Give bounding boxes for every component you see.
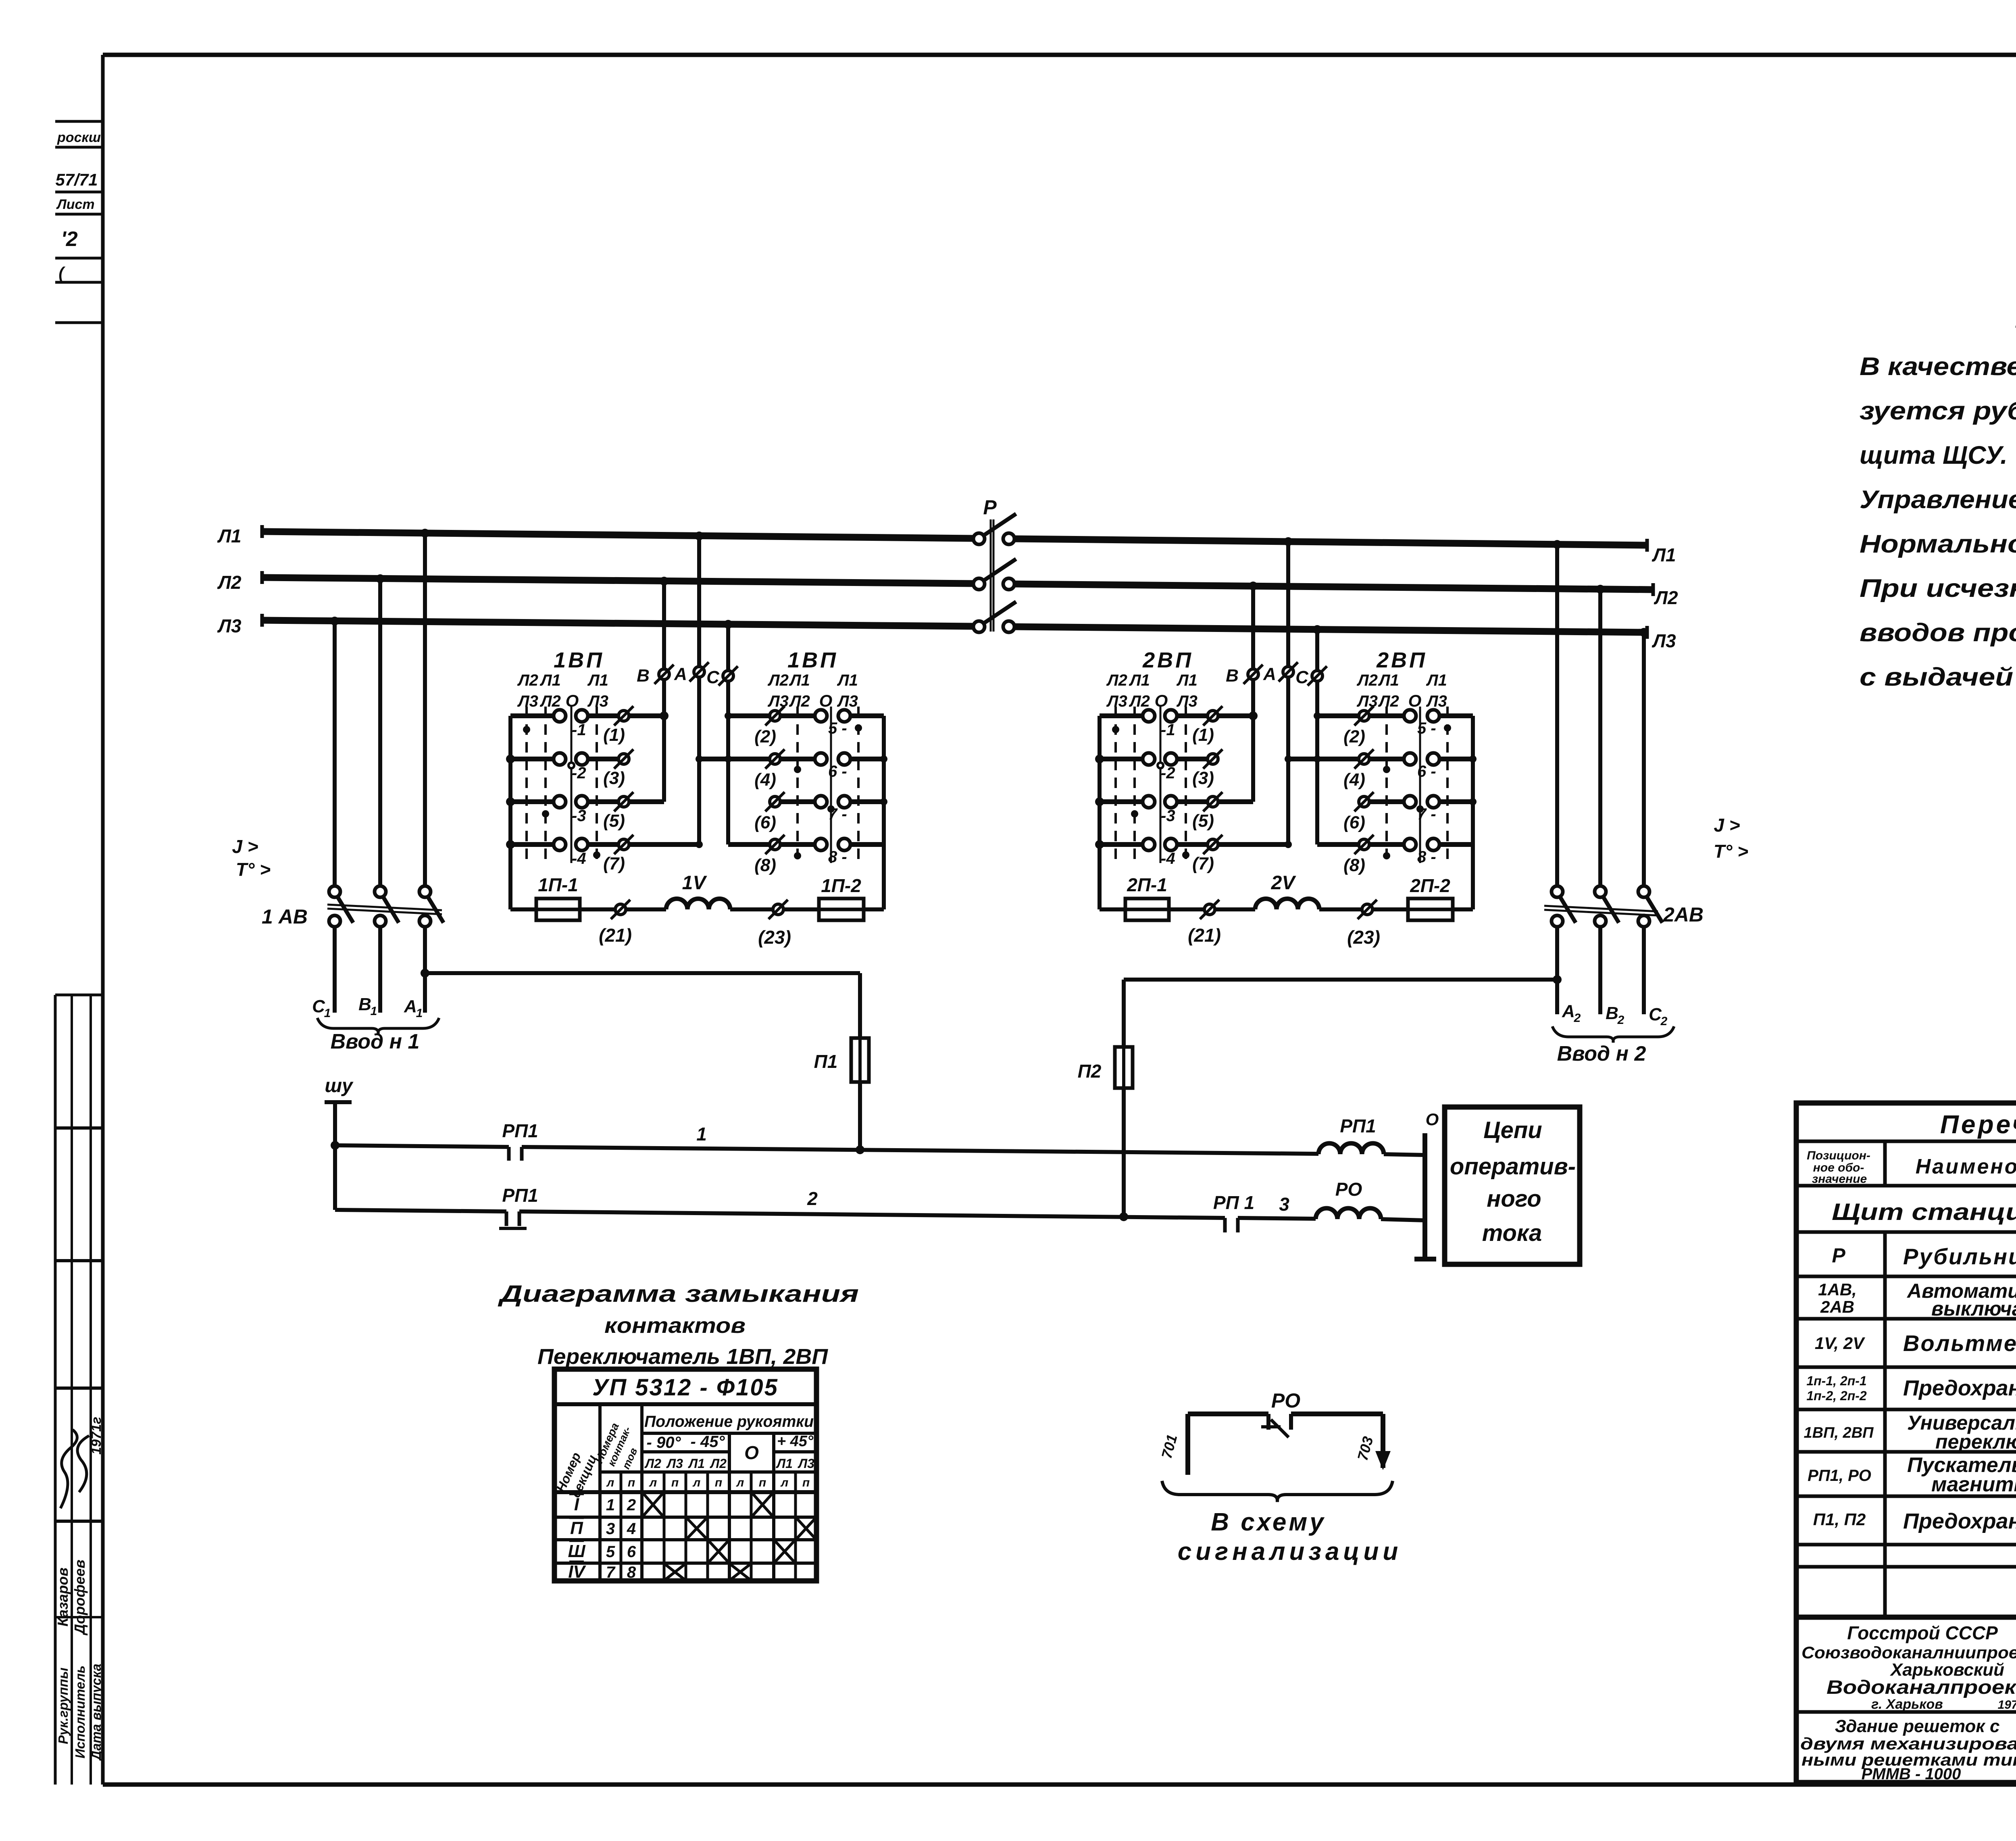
svg-text:О: О [1426, 1110, 1439, 1129]
svg-text:1: 1 [416, 1007, 423, 1020]
svg-text:О: О [566, 691, 579, 710]
heading contact closure diagram [497, 1281, 859, 1369]
svg-text:Л1: Л1 [217, 525, 241, 546]
svg-text:УП 5312 - Ф105: УП 5312 - Ф105 [592, 1374, 779, 1401]
brace Vvod 1 [317, 1018, 439, 1034]
svg-text:Л1: Л1 [539, 671, 561, 689]
svg-text:(23): (23) [1347, 927, 1380, 948]
svg-text:Л3: Л3 [1106, 692, 1127, 710]
svg-text:О: О [1408, 691, 1422, 710]
voltmeter 2V coil [1255, 872, 1319, 909]
svg-text:п: п [759, 1476, 766, 1489]
svg-text:Л3: Л3 [837, 692, 858, 710]
svg-text:1 АВ: 1 АВ [262, 905, 308, 928]
svg-text:л: л [649, 1476, 657, 1489]
svg-text:1П-1: 1П-1 [538, 874, 578, 895]
svg-text:Л1: Л1 [1176, 671, 1198, 689]
contact RP1 on wire 2 [499, 1185, 538, 1228]
svg-text:I: I [574, 1495, 579, 1514]
svg-text:-3: -3 [572, 807, 586, 825]
terminal bar node O [1414, 1110, 1439, 1259]
svg-text:оператив-: оператив- [1450, 1153, 1576, 1180]
svg-text:л: л [692, 1476, 701, 1489]
svg-text:5: 5 [606, 1543, 615, 1561]
svg-text:РП1: РП1 [502, 1185, 538, 1206]
svg-text:Управление секционным выключат: Управление секционным выключателем-ручно… [1860, 486, 2016, 514]
svg-text:'2: '2 [61, 227, 77, 251]
svg-text:Л3: Л3 [798, 1456, 814, 1471]
svg-text:О: О [1155, 691, 1168, 710]
svg-text:1V, 2V: 1V, 2V [1815, 1334, 1865, 1353]
labels 2ВП left group [1106, 648, 1214, 874]
svg-text:Ш: Ш [568, 1541, 585, 1561]
svg-text:1: 1 [371, 1005, 377, 1018]
phase taps B A C of 1ВП [629, 532, 738, 848]
top-left margin stamp [55, 121, 103, 323]
svg-text:Л2: Л2 [1106, 671, 1127, 689]
svg-text:Л1: Л1 [1426, 671, 1447, 689]
svg-text:Л3: Л3 [217, 615, 242, 636]
svg-text:Л1: Л1 [776, 1456, 793, 1471]
svg-text:Л2: Л2 [217, 572, 242, 593]
terminal (23) of 2ВП [1319, 900, 1408, 948]
explanations paragraph [1860, 352, 2016, 691]
svg-text:О: О [744, 1442, 759, 1463]
terminal labels C1 B1 A1 [312, 995, 423, 1020]
knife switch P [973, 514, 1016, 632]
element list table [1796, 1103, 2016, 1783]
svg-text:2ВП: 2ВП [1376, 648, 1427, 672]
svg-text:2П-1: 2П-1 [1127, 874, 1167, 895]
svg-text:Л3: Л3 [1176, 692, 1198, 710]
svg-text:Л3: Л3 [767, 692, 789, 710]
svg-text:В качестве секционного выключа: В качестве секционного выключателя испол… [1860, 352, 2016, 381]
fuse P2 [1078, 1047, 1133, 1217]
svg-text:переключатель: переключатель [1935, 1430, 2016, 1453]
svg-text:Л3: Л3 [517, 692, 538, 710]
svg-text:Госстрой СССР: Госстрой СССР [1847, 1622, 1998, 1643]
svg-text:С: С [312, 997, 325, 1016]
svg-text:57/71: 57/71 [55, 170, 98, 189]
control wire 2 [335, 1210, 1316, 1221]
svg-text:При исчезновении напряжения на: При исчезновении напряжения на одном из [1860, 574, 2016, 603]
svg-text:1ВП: 1ВП [554, 648, 604, 672]
universal switch 1ВП left group [506, 706, 633, 909]
bus L2 [262, 571, 1653, 596]
svg-text:В: В [1606, 1003, 1618, 1023]
bus L3 [262, 614, 1647, 639]
svg-text:7 -: 7 - [828, 805, 847, 823]
svg-text:Нормальное его положение разом: Нормальное его положение разомкнутое. [1860, 530, 2016, 558]
svg-text:Рубильник: Рубильник [1903, 1244, 2016, 1269]
svg-text:Вольтметр: Вольтметр [1903, 1330, 2016, 1356]
terminal (21) of 1ВП [580, 900, 666, 946]
svg-text:8 -: 8 - [828, 848, 847, 866]
svg-text:роскш: роскш [57, 130, 101, 145]
node ShU [325, 1075, 354, 1210]
coil RP1 [1318, 1115, 1425, 1155]
svg-text:РП1: РП1 [1340, 1115, 1376, 1136]
phase taps B A C of 2ВП [1218, 537, 1327, 848]
svg-text:1: 1 [696, 1124, 707, 1145]
svg-text:(2): (2) [1343, 727, 1365, 746]
svg-text:-2: -2 [1161, 764, 1175, 782]
svg-text:Л1: Л1 [1378, 671, 1399, 689]
svg-text:2П-2: 2П-2 [1410, 875, 1450, 896]
svg-text:1п-2, 2п-2: 1п-2, 2п-2 [1806, 1389, 1867, 1403]
svg-text:5 -: 5 - [1417, 719, 1436, 737]
svg-text:А: А [674, 664, 687, 684]
fuse 2П-2 [1408, 875, 1473, 920]
svg-text:(21): (21) [1188, 925, 1221, 946]
svg-text:Л3: Л3 [1356, 692, 1378, 710]
svg-text:Предохранитель: Предохранитель [1903, 1509, 2016, 1533]
svg-text:с выдачей сигнала в схему сигн: с выдачей сигнала в схему сигнализации. [1860, 663, 2016, 691]
svg-text:Л1: Л1 [688, 1456, 705, 1471]
svg-text:- 90°: - 90° [647, 1434, 681, 1451]
svg-text:2V: 2V [1271, 872, 1297, 894]
svg-text:Наименование: Наименование [1916, 1155, 2016, 1178]
right frame of 1ВП [882, 716, 886, 909]
fuse 1П-1 [510, 874, 580, 920]
svg-text:В: В [637, 666, 650, 686]
svg-text:Казаров: Казаров [54, 1568, 71, 1626]
svg-text:Перечень: Перечень [1940, 1110, 2016, 1139]
svg-text:Л1: Л1 [1129, 671, 1150, 689]
svg-text:1ВП: 1ВП [787, 648, 838, 672]
svg-text:Водоканалпроект: Водоканалпроект [1826, 1677, 2016, 1698]
overcurrent marks J> T> left [232, 836, 271, 880]
svg-text:2: 2 [807, 1188, 818, 1209]
svg-text:значение: значение [1812, 1172, 1867, 1186]
svg-text:Л2: Л2 [1654, 587, 1678, 608]
svg-text:(1): (1) [1192, 725, 1214, 745]
svg-text:Л1: Л1 [587, 671, 608, 689]
fuse 1П-2 [819, 875, 884, 920]
svg-text:(8): (8) [1343, 855, 1365, 875]
svg-text:- 45°: - 45° [691, 1433, 725, 1451]
svg-text:J >: J > [1714, 815, 1740, 836]
svg-text:3: 3 [1279, 1194, 1289, 1215]
svg-text:контактов: контактов [604, 1314, 746, 1338]
svg-text:л: л [606, 1476, 614, 1489]
svg-text:Дата выпуска: Дата выпуска [89, 1664, 104, 1762]
svg-text:В: В [358, 995, 371, 1014]
svg-text:-1: -1 [572, 721, 586, 739]
svg-text:(21): (21) [599, 925, 632, 946]
svg-text:2: 2 [1617, 1013, 1624, 1027]
svg-text:Л2: Л2 [767, 671, 789, 689]
svg-text:Л3: Л3 [666, 1456, 683, 1471]
svg-text:В схему: В схему [1211, 1508, 1326, 1536]
svg-text:Переключатель 1ВП, 2ВП: Переключатель 1ВП, 2ВП [537, 1345, 828, 1369]
svg-text:сигнализации: сигнализации [1178, 1538, 1402, 1566]
svg-text:1: 1 [606, 1496, 615, 1514]
svg-text:Л2: Л2 [1356, 671, 1378, 689]
svg-text:6 -: 6 - [828, 763, 847, 780]
svg-text:(4): (4) [1343, 770, 1365, 790]
fuse P1 [814, 1038, 869, 1148]
switch type table UP 5312-F105 [553, 1369, 816, 1582]
universal switch 2ВП left group [1095, 706, 1223, 909]
control wire 1 [331, 1141, 1318, 1154]
svg-text:1АВ,: 1АВ, [1818, 1280, 1857, 1299]
svg-text:п: п [802, 1476, 810, 1489]
svg-text:(5): (5) [603, 811, 625, 831]
svg-text:Р: Р [1832, 1244, 1845, 1267]
circuit breaker 2AB [1544, 540, 1662, 1014]
labels 2ВП right group [1343, 648, 1447, 875]
brace to signalling [1162, 1481, 1393, 1502]
label to signalling circuit [1178, 1508, 1402, 1566]
svg-text:А: А [1562, 1001, 1575, 1021]
svg-text:Л1: Л1 [1652, 544, 1676, 565]
svg-text:зуется рубильник, установленны: зуется рубильник, установленный на панел… [1860, 397, 2016, 425]
svg-text:Позицион-: Позицион- [1807, 1149, 1870, 1162]
svg-text:6 -: 6 - [1417, 763, 1436, 780]
svg-text:Ввод н 2: Ввод н 2 [1557, 1042, 1646, 1065]
svg-text:Цепи: Цепи [1483, 1117, 1542, 1143]
svg-text:-4: -4 [1161, 850, 1175, 867]
svg-text:Л2: Л2 [710, 1456, 727, 1471]
svg-text:8: 8 [627, 1564, 636, 1581]
svg-text:(7): (7) [1192, 854, 1214, 874]
terminal labels A2 B2 C2 [1562, 1001, 1668, 1028]
svg-text:1971г.: 1971г. [1998, 1698, 2016, 1712]
svg-text:Диаграмма замыкания: Диаграмма замыкания [497, 1281, 859, 1307]
svg-text:(3): (3) [1192, 768, 1214, 788]
svg-text:(5): (5) [1192, 811, 1214, 831]
svg-text:РП1: РП1 [502, 1120, 538, 1141]
svg-text:-1: -1 [1161, 721, 1175, 739]
svg-text:(2): (2) [754, 727, 776, 746]
svg-text:ного: ного [1487, 1186, 1541, 1212]
svg-text:О: О [819, 691, 833, 710]
fuse 2П-1 [1100, 874, 1169, 920]
svg-text:(1): (1) [603, 725, 625, 745]
svg-text:6: 6 [627, 1543, 636, 1561]
svg-text:П1: П1 [814, 1051, 838, 1072]
svg-text:щита ЩСУ.: щита ЩСУ. [1860, 441, 2008, 469]
svg-text:-3: -3 [1161, 807, 1175, 825]
svg-text:1: 1 [324, 1007, 331, 1020]
universal switch 2ВП right group [1285, 706, 1477, 863]
svg-text:Л2: Л2 [517, 671, 538, 689]
circuit breaker 1AB [327, 529, 444, 1013]
svg-text:1п-1, 2п-1: 1п-1, 2п-1 [1806, 1374, 1866, 1388]
svg-text:IV: IV [568, 1562, 586, 1582]
svg-text:п: п [671, 1476, 679, 1489]
svg-text:г. Харьков: г. Харьков [1871, 1697, 1943, 1712]
svg-text:1V: 1V [682, 872, 708, 894]
svg-text:1П-2: 1П-2 [821, 875, 861, 896]
svg-text:п: п [715, 1476, 722, 1489]
svg-text:(4): (4) [754, 770, 776, 790]
svg-text:Дорофеев: Дорофеев [71, 1560, 88, 1636]
svg-text:Л3: Л3 [587, 692, 608, 710]
svg-text:С: С [1295, 667, 1309, 687]
svg-text:п: п [628, 1476, 635, 1489]
svg-text:Л2: Л2 [539, 692, 561, 710]
svg-text:+ 45°: + 45° [777, 1433, 814, 1450]
svg-text:8 -: 8 - [1417, 848, 1436, 866]
svg-text:Л1: Л1 [789, 671, 810, 689]
svg-text:РММВ - 1000: РММВ - 1000 [1862, 1765, 1961, 1783]
svg-text:С: С [706, 667, 720, 687]
svg-text:вводов происходит АВР оператив: вводов происходит АВР оперативного тока [1860, 619, 2016, 647]
svg-text:П: П [570, 1518, 583, 1538]
bottom-left vertical stamp [54, 995, 104, 1785]
svg-text:Л3: Л3 [1652, 630, 1676, 651]
svg-text:А: А [1263, 664, 1276, 684]
terminal (23) of 1ВП [730, 900, 819, 948]
contact RP1 on wire 1 [502, 1120, 538, 1161]
svg-text:л: л [736, 1476, 744, 1489]
svg-text:3: 3 [606, 1520, 615, 1538]
svg-text:Л2: Л2 [789, 692, 810, 710]
svg-text:Т° >: Т° > [236, 859, 271, 880]
svg-text:(3): (3) [603, 768, 625, 788]
svg-text:Союзводоканалниипроект: Союзводоканалниипроект [1801, 1643, 2016, 1662]
title block object cell [1800, 1716, 2016, 1783]
svg-text:(6): (6) [1343, 813, 1365, 832]
svg-text:7 -: 7 - [1417, 805, 1436, 823]
element list texts [1804, 1108, 2016, 1537]
svg-text:2АВ: 2АВ [1663, 903, 1704, 926]
svg-text:Л2: Л2 [644, 1456, 661, 1471]
wire A1 to fuse P1 [421, 969, 860, 1038]
svg-text:-4: -4 [572, 850, 586, 867]
svg-text:2: 2 [1660, 1015, 1668, 1028]
svg-text:шу: шу [325, 1075, 354, 1097]
svg-text:Исполнитель: Исполнитель [73, 1666, 87, 1759]
svg-text:2АВ: 2АВ [1820, 1297, 1854, 1316]
svg-text:Л2: Л2 [1378, 692, 1399, 710]
labels 1ВП left group [517, 648, 625, 874]
svg-text:Л2: Л2 [1129, 692, 1150, 710]
svg-text:Р: Р [983, 496, 997, 519]
svg-text:П2: П2 [1078, 1061, 1102, 1082]
svg-text:Рук.группы: Рук.группы [56, 1668, 71, 1744]
svg-text:П1, П2: П1, П2 [1813, 1510, 1866, 1529]
contact RP1 wire 3 [1213, 1192, 1289, 1232]
svg-text:РП1, РО: РП1, РО [1808, 1467, 1871, 1484]
svg-text:-2: -2 [572, 764, 586, 782]
svg-text:5 -: 5 - [828, 719, 847, 737]
svg-text:Лист: Лист [56, 197, 94, 212]
bus L1 [262, 525, 1647, 552]
svg-text:Ввод н 1: Ввод н 1 [331, 1030, 420, 1053]
svg-text:(7): (7) [603, 854, 625, 874]
contact RO to signalling circuit [1158, 1389, 1389, 1475]
title block frame [1796, 1617, 2016, 1783]
svg-text:Положение рукоятки: Положение рукоятки [644, 1413, 814, 1430]
wire A2 to fuse P2 [1124, 975, 1562, 1047]
svg-text:(8): (8) [754, 855, 776, 875]
svg-text:Т° >: Т° > [1714, 841, 1748, 862]
svg-text:1ВП, 2ВП: 1ВП, 2ВП [1804, 1424, 1874, 1441]
svg-text:Предохранитель: Предохранитель [1903, 1376, 2016, 1400]
title block org cell [1801, 1622, 2016, 1712]
svg-text:РП 1: РП 1 [1213, 1192, 1254, 1213]
svg-text:РО: РО [1271, 1389, 1300, 1412]
svg-text:1971г: 1971г [89, 1417, 104, 1455]
svg-text:Здание решеток с: Здание решеток с [1835, 1716, 2000, 1736]
svg-text:выключатель: выключатель [1931, 1297, 2016, 1320]
svg-text:тока: тока [1482, 1220, 1542, 1246]
svg-text:(6): (6) [754, 813, 776, 832]
voltmeter 1V coil [666, 872, 730, 909]
universal switch 1ВП right group [696, 706, 887, 863]
svg-text:(23): (23) [758, 927, 791, 948]
svg-text:л: л [780, 1476, 789, 1489]
svg-text:Щит станций управления: Щит станций управления ЩСУ [1832, 1199, 2016, 1225]
svg-text:А: А [404, 997, 417, 1016]
svg-text:2ВП: 2ВП [1142, 648, 1193, 672]
svg-text:J >: J > [232, 836, 258, 857]
coil RO [1316, 1179, 1425, 1220]
svg-text:Л1: Л1 [837, 671, 858, 689]
terminal (21) of 2ВП [1169, 900, 1255, 946]
svg-text:7: 7 [606, 1564, 616, 1581]
svg-text:4: 4 [627, 1520, 636, 1538]
svg-text:В: В [1226, 666, 1239, 686]
right frame of 2ВП [1471, 716, 1475, 909]
brace Vvod 2 [1552, 1026, 1674, 1042]
box operational current circuits [1445, 1107, 1580, 1264]
svg-text:магнитный: магнитный [1931, 1473, 2016, 1496]
svg-text:С: С [1649, 1005, 1662, 1024]
svg-text:РО: РО [1335, 1179, 1362, 1200]
svg-text:Л3: Л3 [1426, 692, 1447, 710]
labels 1ВП right group [754, 648, 858, 875]
svg-text:2: 2 [1574, 1011, 1581, 1025]
overcurrent marks J> T> right [1714, 815, 1748, 862]
svg-text:2: 2 [627, 1496, 636, 1514]
